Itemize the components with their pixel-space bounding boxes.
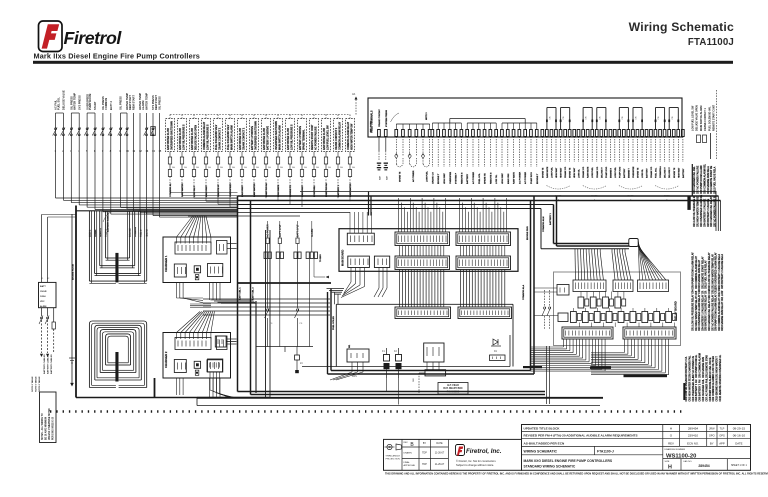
svg-text:CR8 PUMP ROOM ALARM RELAY CR11: CR8 PUMP ROOM ALARM RELAY CR11 [715,287,718,331]
svg-text:LOW FUEL LEVEL SW: LOW FUEL LEVEL SW [692,105,695,131]
svg-text:RAW WATER: RAW WATER [181,183,184,197]
svg-text:CHGR: CHGR [40,291,47,293]
svg-text:SPARE TE: SPARE TE [637,167,640,178]
svg-text:CR8 PUMP ROOM ALARM: CR8 PUMP ROOM ALARM [700,165,703,194]
svg-text:CRANK CONTACT 2: CRANK CONTACT 2 [242,127,245,150]
svg-text:RAW WATE: RAW WATE [513,172,516,184]
svg-text:MAIN SWIT: MAIN SWIT [241,185,244,197]
svg-text:BATT CBL 2: BATT CBL 2 [252,287,255,300]
svg-text:PUMP ROOM: PUMP ROOM [326,183,328,197]
svg-text:SYS PRESS: SYS PRESS [77,95,81,110]
svg-text:ALRM: ALRM [40,305,46,308]
svg-text:CR2 HIGH WATER TEMP RELAY: CR2 HIGH WATER TEMP RELAY [711,254,714,289]
svg-text:CR4 BATTERY 1 FAILURE RELAY CR: CR4 BATTERY 1 FAILURE RELAY CR [701,290,704,331]
svg-text:CRANK CONTACT 2: CRANK CONTACT 2 [218,127,221,150]
svg-text:BATTERY CABLES: BATTERY CABLES [43,354,46,374]
svg-text:MAIN S: MAIN S [89,229,92,237]
svg-text:OVERSPEED SHUTDOWN: OVERSPEED SHUTDOWN [171,121,173,150]
svg-text:HIGH WAT: HIGH WAT [555,167,558,178]
svg-text:SYSTEM PRESS: SYSTEM PRESS [386,109,388,127]
svg-text:RAW WATER FLOW: RAW WATER FLOW [287,127,290,150]
svg-text:LOW OIL PRESSURE S: LOW OIL PRESSURE S [291,124,293,150]
svg-text:CR10 ENGINE RUN RELAY CR1 LOW: CR10 ENGINE RUN RELAY CR1 LOW [721,290,724,331]
svg-text:HIGH WAT: HIGH WAT [501,173,504,184]
svg-text:SPARE TE: SPARE TE [399,171,402,182]
svg-text:BY: BY [423,442,427,445]
svg-text:CR1 LOW OIL PRES: CR1 LOW OIL PRES [713,356,715,378]
svg-text:PER DWG WS1100-20: PER DWG WS1100-20 [53,416,55,440]
svg-text:HIGH WAT: HIGH WAT [677,167,680,178]
svg-text:WIRING SCHEMATIC: WIRING SCHEMATIC [524,449,558,453]
svg-text:DELUGE VALVE: DELUGE VALVE [62,90,66,110]
svg-text:SYSTEM P: SYSTEM P [456,172,458,184]
svg-text:FUEL SOL: FUEL SOL [656,167,658,178]
svg-text:BATT CBL 1: BATT CBL 1 [239,287,242,300]
svg-text:CRANK: CRANK [94,229,97,237]
svg-text:FTA1100J: FTA1100J [688,37,734,48]
svg-text:BATTERY 2 POSITIVE: BATTERY 2 POSITIVE [266,126,269,150]
svg-text:Subject to change without noti: Subject to change without notice. [456,463,494,467]
svg-text:DRAWN: DRAWN [404,452,413,455]
svg-text:PUMP ROO: PUMP ROO [531,172,533,184]
svg-text:MAIN BOARD: MAIN BOARD [342,250,345,266]
svg-text:HIGH WAT: HIGH WAT [573,167,576,178]
svg-text:BATTERY 1 POSITIVE: BATTERY 1 POSITIVE [251,126,254,150]
svg-text:RAW WATER FLOW: RAW WATER FLOW [167,127,170,150]
svg-text:CR3 OVERSPEED ALA: CR3 OVERSPEED ALA [692,376,695,401]
svg-text:COMMON ALARM RELAY: COMMON ALARM RELAY [203,121,206,150]
svg-text:CR8 PUMP ROOM AL: CR8 PUMP ROOM AL [695,354,698,378]
svg-text:MPU: MPU [352,376,357,378]
svg-text:CRANK CO: CRANK CO [431,172,434,184]
svg-text:RAW WATER FLOW: RAW WATER FLOW [179,127,182,150]
svg-text:LOW FUEL: LOW FUEL [314,185,316,197]
svg-text:OVERSPEED: OVERSPEED [230,183,232,197]
svg-text:SPARE TE: SPARE TE [541,167,544,178]
svg-text:HIGH WAT: HIGH WAT [560,167,563,178]
svg-text:REMOTE S: REMOTE S [461,172,463,184]
svg-text:PUMP ROOM: PUMP ROOM [88,94,92,110]
svg-text:REMOTE S: REMOTE S [490,172,492,184]
svg-text:BATTERY 1: BATTERY 1 [337,184,340,197]
svg-text:CR8 PUMP ROOM ALA: CR8 PUMP ROOM ALA [709,376,712,401]
svg-text:REV: REV [404,442,409,444]
svg-text:HIGH WATE: HIGH WATE [277,184,280,197]
svg-text:MARK IIXG DIESEL ENGINE FIRE P: MARK IIXG DIESEL ENGINE FIRE PUMP CONTRO… [524,459,613,463]
svg-text:OIL PRESS: OIL PRESS [119,96,123,110]
svg-text:CR1 LOW OIL PRESS: CR1 LOW OIL PRESS [686,378,688,402]
svg-text:BAT: BAT [379,175,382,180]
svg-text:DELUGE V: DELUGE V [669,167,671,178]
svg-text:COMMON ALA: COMMON ALA [522,284,525,300]
svg-text:AC POWER: AC POWER [524,172,527,184]
svg-text:OIL PRESS: OIL PRESS [158,96,162,110]
svg-text:FUEL SOLENOID VAL: FUEL SOLENOID VAL [708,106,711,131]
svg-text:DELUGE: DELUGE [130,228,132,237]
svg-text:H: H [668,465,672,471]
svg-text:CR12 FUEL VALVE RELA: CR12 FUEL VALVE RELA [714,166,717,194]
svg-text:REMOTE: REMOTE [100,227,102,237]
svg-text:RAW WATER: RAW WATER [349,183,352,197]
svg-text:CR8 PUMP ROOM ALARM RELAY: CR8 PUMP ROOM ALARM RELAY [692,252,695,289]
svg-text:ENGINE TE: ENGINE TE [290,185,292,197]
svg-text:RAW WATER FLOW: RAW WATER FLOW [263,127,266,150]
svg-text:RAW WATE: RAW WATE [587,166,590,178]
svg-text:AC POWER: AC POWER [267,224,270,237]
svg-text:CR2 HIGH WATER TE: CR2 HIGH WATER TE [688,378,691,402]
svg-text:Mark IIxs Diesel Engine Fire P: Mark IIxs Diesel Engine Fire Pump Contro… [34,51,201,60]
svg-text:PUMP ROO: PUMP ROO [606,166,608,178]
svg-text:CR11 REMOTE START RELAY: CR11 REMOTE START RELAY [701,256,704,289]
svg-text:RELAY BOARD: RELAY BOARD [674,301,678,320]
svg-text:11-26-07: 11-26-07 [435,463,445,466]
svg-text:WATER TEMP: WATER TEMP [145,93,149,110]
svg-text:CR5 BATTERY 2 FAILURE RELA: CR5 BATTERY 2 FAILURE RELA [721,254,724,289]
svg-text:CAD NO.: CAD NO. [683,460,693,463]
svg-text:ALT. FIELD: ALT. FIELD [447,384,459,387]
svg-text:CR5 BATTERY 2 FAILURE RELAY CR: CR5 BATTERY 2 FAILURE RELAY CR [705,290,708,331]
svg-text:3A: 3A [352,92,355,96]
svg-text:LOW OIL P: LOW OIL P [194,185,196,197]
svg-text:OVERSPEED SHUTDOWN: OVERSPEED SHUTDOWN [255,121,257,150]
svg-text:Wiring Schematic: Wiring Schematic [629,20,734,34]
svg-text:CR9 COMMON ALARM: CR9 COMMON ALARM [699,353,702,378]
svg-text:REM START: REM START [154,95,158,110]
svg-text:CRANK CONTAC: CRANK CONTAC [378,109,381,127]
svg-text:COMMON: COMMON [104,98,108,110]
svg-text:RAW WATER FLOW: RAW WATER FLOW [239,127,242,150]
svg-text:LOW FUEL: LOW FUEL [426,170,428,182]
svg-text:NOTE 6 TABLE: NOTE 6 TABLE [34,376,37,392]
svg-text:BATT: BATT [40,285,46,288]
svg-text:RAW WATE: RAW WATE [546,166,549,178]
svg-text:OVERSPEED SHUTDOWN: OVERSPEED SHUTDOWN [276,121,278,150]
svg-text:FUEL S: FUEL S [141,229,143,237]
svg-text:CRANK CO: CRANK CO [596,166,599,178]
svg-text:AC POWER FAILURE: AC POWER FAILURE [314,126,317,150]
svg-text:CR1 LOW OIL PRESSURE RELAY: CR1 LOW OIL PRESSURE RELAY [708,252,711,289]
svg-text:BATTERY 1: BATTERY 1 [549,212,552,225]
svg-text:SPARE TE: SPARE TE [484,173,487,184]
svg-text:CR7 AC POWER FAILURE: CR7 AC POWER FAILURE [697,165,700,194]
svg-text:PUMP ROOM: PUMP ROOM [266,183,268,197]
svg-text:RAW WATER FLOW: RAW WATER FLOW [323,127,326,150]
svg-text:FINAL: FINAL [404,461,411,464]
svg-text:CR10 ENGINE RUN RELAY: CR10 ENGINE RUN RELAY [698,259,701,289]
svg-text:REVISED PER FM-4 (FTA)-20 ADDI: REVISED PER FM-4 (FTA)-20 ADDITIONAL AUD… [524,433,638,437]
svg-text:289454: 289454 [698,464,709,468]
svg-text:CR5 BATTERY 2 FAILURE: CR5 BATTERY 2 FAILURE [707,198,710,227]
svg-text:LOW OIL PRESSURE S: LOW OIL PRESSURE S [183,124,185,150]
svg-text:CR6 CHARGER FAIL: CR6 CHARGER FAIL [688,355,691,378]
svg-text:CR3 OVERSPEED AL: CR3 OVERSPEED AL [719,354,722,378]
svg-text:COMMON ALARM RELAY: COMMON ALARM RELAY [347,121,350,150]
svg-text:START: START [93,101,97,110]
svg-text:SPARE TERMINAL: SPARE TERMINAL [302,129,305,150]
svg-text:BATTERY CABLES: BATTERY CABLES [50,354,53,374]
svg-text:289454: 289454 [688,427,699,431]
svg-text:BAT. READY BOX: BAT. READY BOX [443,387,463,390]
svg-text:APPROVAL: APPROVAL [404,464,416,467]
svg-text:CR3 OVERSPEED ALARM RELAY CR6: CR3 OVERSPEED ALARM RELAY CR6 [698,288,701,331]
svg-text:REV: REV [668,441,674,445]
svg-text:CR12 FUEL VALVE RELAY: CR12 FUEL VALVE RELAY [705,260,708,289]
svg-text:REM START: REM START [132,95,136,110]
svg-text:DELUGE VALVE OPEN: DELUGE VALVE OPEN [696,105,699,131]
svg-text:TDP: TDP [422,452,427,455]
svg-text:AC POWER: AC POWER [412,170,415,182]
svg-text:LOW OIL: LOW OIL [642,168,644,178]
svg-text:CR7 AC POWER FAIL: CR7 AC POWER FAIL [705,378,708,402]
svg-text:AC POWER: AC POWER [472,172,475,184]
svg-text:CR3 OVERSPEED ALARM RELAY: CR3 OVERSPEED ALARM RELAY [715,252,718,289]
svg-text:LOW FUEL: LOW FUEL [592,166,594,178]
svg-text:CR3 OVERSPEED ALARM RE: CR3 OVERSPEED ALARM RE [700,194,703,227]
svg-text:MAIN SWI: MAIN SWI [507,173,510,184]
svg-text:CR12 FUEL VALVE: CR12 FUEL VALVE [709,357,712,378]
svg-text:COMMON A: COMMON A [659,166,662,178]
svg-text:BATTERY CABLES: BATTERY CABLES [107,212,110,232]
svg-text:CR2 HIGH WATER TEMP RELAY CR5: CR2 HIGH WATER TEMP RELAY CR5 [695,290,698,331]
svg-text:DELUGE V: DELUGE V [665,167,667,178]
svg-text:CR10 ENGINE RUN: CR10 ENGINE RUN [703,357,705,378]
svg-text:CR10 ENGINE RUN RELA: CR10 ENGINE RUN RELA [707,166,710,194]
svg-text:DATE: DATE [735,441,742,445]
svg-text:12/24: 12/24 [40,295,46,298]
svg-text:CRANK CONTACT 2: CRANK CONTACT 2 [335,127,338,150]
svg-text:CR11 REMOTE STAR: CR11 REMOTE STAR [705,355,708,378]
svg-text:CRANK CONTACT 1: CRANK CONTACT 1 [704,108,707,131]
svg-text:SEE: SEE [413,377,415,382]
svg-text:MAIN SWITCH ALARM: MAIN SWITCH ALARM [230,125,233,150]
svg-text:CR7 AC POWER FAILURE RELAY CR1: CR7 AC POWER FAILURE RELAY CR1 [711,289,714,331]
svg-text:CR5 BATTERY 2 FAI: CR5 BATTERY 2 FAI [699,379,702,401]
svg-text:CHARGER 2: CHARGER 2 [164,351,168,368]
svg-text:FUEL SOLEN: FUEL SOLEN [333,316,335,330]
svg-text:ENGINE ROOM: ENGINE ROOM [73,264,75,280]
svg-text:BATTERY 2 POSITIVE: BATTERY 2 POSITIVE [299,126,302,150]
svg-text:REM START: REM START [128,95,132,110]
svg-text:LOW FUEL: LOW FUEL [552,166,554,178]
svg-text:WS1100-20: WS1100-20 [666,454,696,460]
svg-text:11-26-07: 11-26-07 [435,452,445,455]
svg-text:OVERSPEE: OVERSPEE [450,171,452,184]
svg-text:AC POWER: AC POWER [518,172,521,184]
svg-text:NOTE 6 TABLE: NOTE 6 TABLE [38,376,41,392]
svg-text:CR2 HIGH WATER TEMP RE: CR2 HIGH WATER TEMP RE [697,196,700,227]
svg-text:BATTERY: BATTERY [623,168,626,178]
svg-text:ENGINE T: ENGINE T [628,167,630,178]
svg-text:OVERSPEE: OVERSPEE [633,166,635,178]
svg-text:COMMON ALARM RELAY: COMMON ALARM RELAY [338,121,341,150]
svg-text:LOW FUEL LEVEL SW: LOW FUEL LEVEL SW [327,125,329,150]
svg-text:CR1 LOW OIL PRESSURE RELAY CR4: CR1 LOW OIL PRESSURE RELAY CR4 [692,289,695,331]
svg-text:MAIN SWIT: MAIN SWIT [301,185,304,197]
svg-text:ALARM: ALARM [311,229,314,237]
svg-text:HIGH W: HIGH W [147,229,149,237]
svg-text:NOTE 6 TABLE: NOTE 6 TABLE [31,376,34,392]
svg-text:RAW WATER FLOW: RAW WATER FLOW [191,127,194,150]
svg-text:ENGINE RUN: ENGINE RUN [527,226,529,240]
svg-text:CRANK CO: CRANK CO [564,166,567,178]
svg-text:BY: BY [710,441,714,445]
svg-text:COMMON ALM: COMMON ALM [542,216,545,232]
svg-text:AS-BUILT/ADDED PER ECN: AS-BUILT/ADDED PER ECN [524,441,565,445]
svg-text:VDC: VDC [40,301,45,303]
svg-text:TDP: TDP [422,463,427,466]
svg-text:CR6 CHARGER FAIL: CR6 CHARGER FAIL [702,378,705,401]
svg-text:CR11 REMOTE START RE: CR11 REMOTE START RE [710,165,713,194]
svg-text:239410: 239410 [688,433,699,437]
svg-text:WATER TEMP: WATER TEMP [72,93,76,110]
svg-text:DELUGE V: DELUGE V [601,167,603,178]
svg-text:BATT 2 FLT: BATT 2 FLT [297,224,300,237]
svg-text:CR2 HIGH WATER T: CR2 HIGH WATER T [716,356,719,378]
svg-text:BATTERY CABLES: BATTERY CABLES [47,354,50,374]
svg-text:COMMON: COMMON [135,227,137,237]
svg-text:PUMP ROO: PUMP ROO [619,166,621,178]
svg-text:ENGINE T: ENGINE T [537,173,539,184]
svg-text:BAT: BAT [385,175,388,180]
svg-text:ECN NO.: ECN NO. [687,441,699,445]
svg-text:© Firetrol, Inc. Not for cons: © Firetrol, Inc. Not for construction. [456,459,497,463]
svg-text:PROJECTION: PROJECTION [386,459,401,461]
svg-text:CR10 ENGINE RUN R: CR10 ENGINE RUN R [717,378,719,402]
svg-text:TO ENG: TO ENG [320,254,322,262]
svg-text:HIGH WAT: HIGH WAT [443,173,446,184]
svg-text:CR7 AC POWER FAILURE R: CR7 AC POWER FAILURE R [714,196,717,227]
svg-text:BATT 2: BATT 2 [109,101,113,110]
svg-text:CR1 LOW OIL PRESSURE R: CR1 LOW OIL PRESSURE R [694,196,696,227]
svg-text:BE 16 AWG MINIMUM: BE 16 AWG MINIMUM [45,417,48,440]
svg-text:LOW OIL: LOW OIL [579,168,581,178]
svg-text:NOTE 3: NOTE 3 [426,112,428,120]
svg-text:FUEL SOLENOID VALV: FUEL SOLENOID VALV [215,124,218,150]
svg-text:FUEL SOL: FUEL SOL [479,173,481,184]
svg-text:CRANK CO: CRANK CO [582,166,585,178]
svg-text:CR5 BATTERY 2 FA: CR5 BATTERY 2 FA [685,356,688,378]
svg-text:RELAY BD: RELAY BD [370,121,373,132]
svg-text:CR6 CHARGER FAIL RELAY: CR6 CHARGER FAIL RELAY [710,196,713,227]
svg-text:06-16-10: 06-16-10 [733,433,746,437]
svg-text:REMOTE ST: REMOTE ST [218,184,220,197]
svg-text:CR4 BATTERY 1 FAILURE: CR4 BATTERY 1 FAILURE [703,198,706,227]
svg-text:CR9 COMMON ALARM RELAY: CR9 COMMON ALARM RELAY [695,256,698,289]
svg-text:RAW WATER: RAW WATER [253,183,256,197]
svg-text:CR9 COMMON ALARM: CR9 COMMON ALARM [712,377,715,402]
svg-text:CR11 REMOTE START: CR11 REMOTE START [719,377,722,402]
svg-text:REMOTE START CONT: REMOTE START CONT [311,124,314,150]
svg-text:HIGH WATER TEMP SW: HIGH WATER TEMP SW [350,123,353,150]
svg-text:CR4 BATTERY 1 FAILURE RELA: CR4 BATTERY 1 FAILURE RELA [718,254,721,289]
svg-text:MAIN SWITCH ALARM: MAIN SWITCH ALARM [278,125,281,150]
svg-text:TLP: TLP [720,427,725,431]
svg-text:LOW FUEL: LOW FUEL [615,166,617,178]
svg-text:FUEL SOLENOID VALV: FUEL SOLENOID VALV [227,124,230,150]
svg-text:BATTERY: BATTERY [646,168,649,178]
svg-text:Firetrol, Inc.: Firetrol, Inc. [466,448,502,455]
svg-text:DATE: DATE [436,442,443,445]
svg-text:APP: APP [719,441,725,445]
svg-text:JRW: JRW [709,427,715,431]
svg-text:OPS: OPS [719,433,725,437]
svg-text:SPARE TE: SPARE TE [673,167,676,178]
svg-text:CHARGER 1: CHARGER 1 [164,255,168,272]
svg-text:DELUGE VALVE OPEN: DELUGE VALVE OPEN [194,125,197,150]
svg-text:ENGINE T: ENGINE T [438,173,440,184]
svg-text:SHEET 1 OF 1: SHEET 1 OF 1 [731,464,748,467]
svg-text:LOW OIL PRESSURE S: LOW OIL PRESSURE S [207,124,209,150]
svg-text:CR6 CHARGER FAIL RELAY CR9 COM: CR6 CHARGER FAIL RELAY CR9 COM [708,289,711,331]
svg-text:CR6 CHARGER FAIL REL: CR6 CHARGER FAIL REL [693,166,696,194]
svg-text:H: H [670,427,672,431]
svg-text:UPDATED TITLE BLOCK: UPDATED TITLE BLOCK [524,427,561,431]
svg-text:BATTERY: BATTERY [682,168,685,178]
svg-text:ALARM: ALARM [141,101,145,110]
svg-text:FTA1100-J: FTA1100-J [597,449,614,453]
svg-text:BATTERY: BATTERY [466,173,469,184]
svg-text:Firetrol: Firetrol [64,28,123,48]
svg-text:MAIN SWITCH ALARM: MAIN SWITCH ALARM [700,106,703,131]
svg-text:09-29-15: 09-29-15 [733,427,746,431]
svg-text:LOW OIL: LOW OIL [496,174,498,184]
svg-text:MAIN SWIT: MAIN SWIT [205,185,208,197]
svg-text:OPO: OPO [709,433,715,437]
svg-text:SIZE: SIZE [665,461,670,463]
svg-text:SPARE TE: SPARE TE [569,167,572,178]
svg-text:ENGINE R: ENGINE R [611,167,613,178]
svg-text:CR9 COMMON ALARM REL: CR9 COMMON ALARM REL [703,163,706,194]
svg-text:NOTES - ALL WIRING TO: NOTES - ALL WIRING TO [41,413,44,440]
svg-text:THIRD ANGLE: THIRD ANGLE [385,455,400,458]
svg-text:FUEL SOL: FUEL SOL [57,97,61,110]
svg-text:THIS DRAWING AND ALL INFORMATI: THIS DRAWING AND ALL INFORMATION CONTAIN… [385,472,768,475]
svg-text:COMMON AL: COMMON AL [169,183,172,197]
svg-text:DRAWING NUMBER: DRAWING NUMBER [665,448,686,451]
svg-text:CR9 COMMON ALARM RELAY CR12 FU: CR9 COMMON ALARM RELAY CR12 FU [718,287,721,331]
svg-text:STANDARD WIRING SCHEMATIC: STANDARD WIRING SCHEMATIC [524,465,576,469]
svg-text:CRANK CO: CRANK CO [650,166,653,178]
svg-text:REMOTE START CONT: REMOTE START CONT [713,104,716,131]
svg-text:BATT 1 FLT: BATT 1 FLT [279,224,282,237]
svg-text:CR4 BATTERY 1 FAI: CR4 BATTERY 1 FAI [695,379,698,401]
svg-text:CR7 AC POWER FAI: CR7 AC POWER FAI [692,356,695,378]
